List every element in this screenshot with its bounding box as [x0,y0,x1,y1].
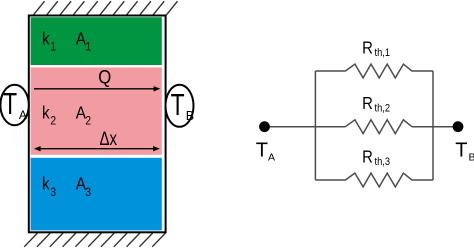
svg-text:th,3: th,3 [375,156,391,168]
svg-text:A: A [268,152,275,164]
svg-text:R: R [362,38,373,57]
svg-text:k: k [42,28,50,48]
svg-text:2: 2 [50,115,56,128]
svg-text:B: B [186,109,194,123]
svg-text:3: 3 [50,187,56,200]
svg-text:k: k [42,174,50,194]
svg-text:T: T [171,86,185,121]
svg-text:Δx: Δx [100,128,118,149]
svg-text:k: k [42,102,50,122]
svg-text:T: T [455,139,467,161]
svg-text:R: R [362,147,373,166]
svg-text:Q: Q [98,67,111,88]
svg-text:1: 1 [50,41,56,54]
svg-text:R: R [362,94,373,113]
svg-text:T: T [3,86,17,121]
svg-text:1: 1 [85,41,91,54]
svg-text:th,2: th,2 [375,103,391,115]
svg-text:3: 3 [85,187,91,200]
svg-text:A: A [19,108,27,122]
svg-text:B: B [469,152,474,164]
svg-text:2: 2 [85,115,91,128]
svg-text:th,1: th,1 [375,47,391,59]
svg-text:T: T [256,139,268,161]
